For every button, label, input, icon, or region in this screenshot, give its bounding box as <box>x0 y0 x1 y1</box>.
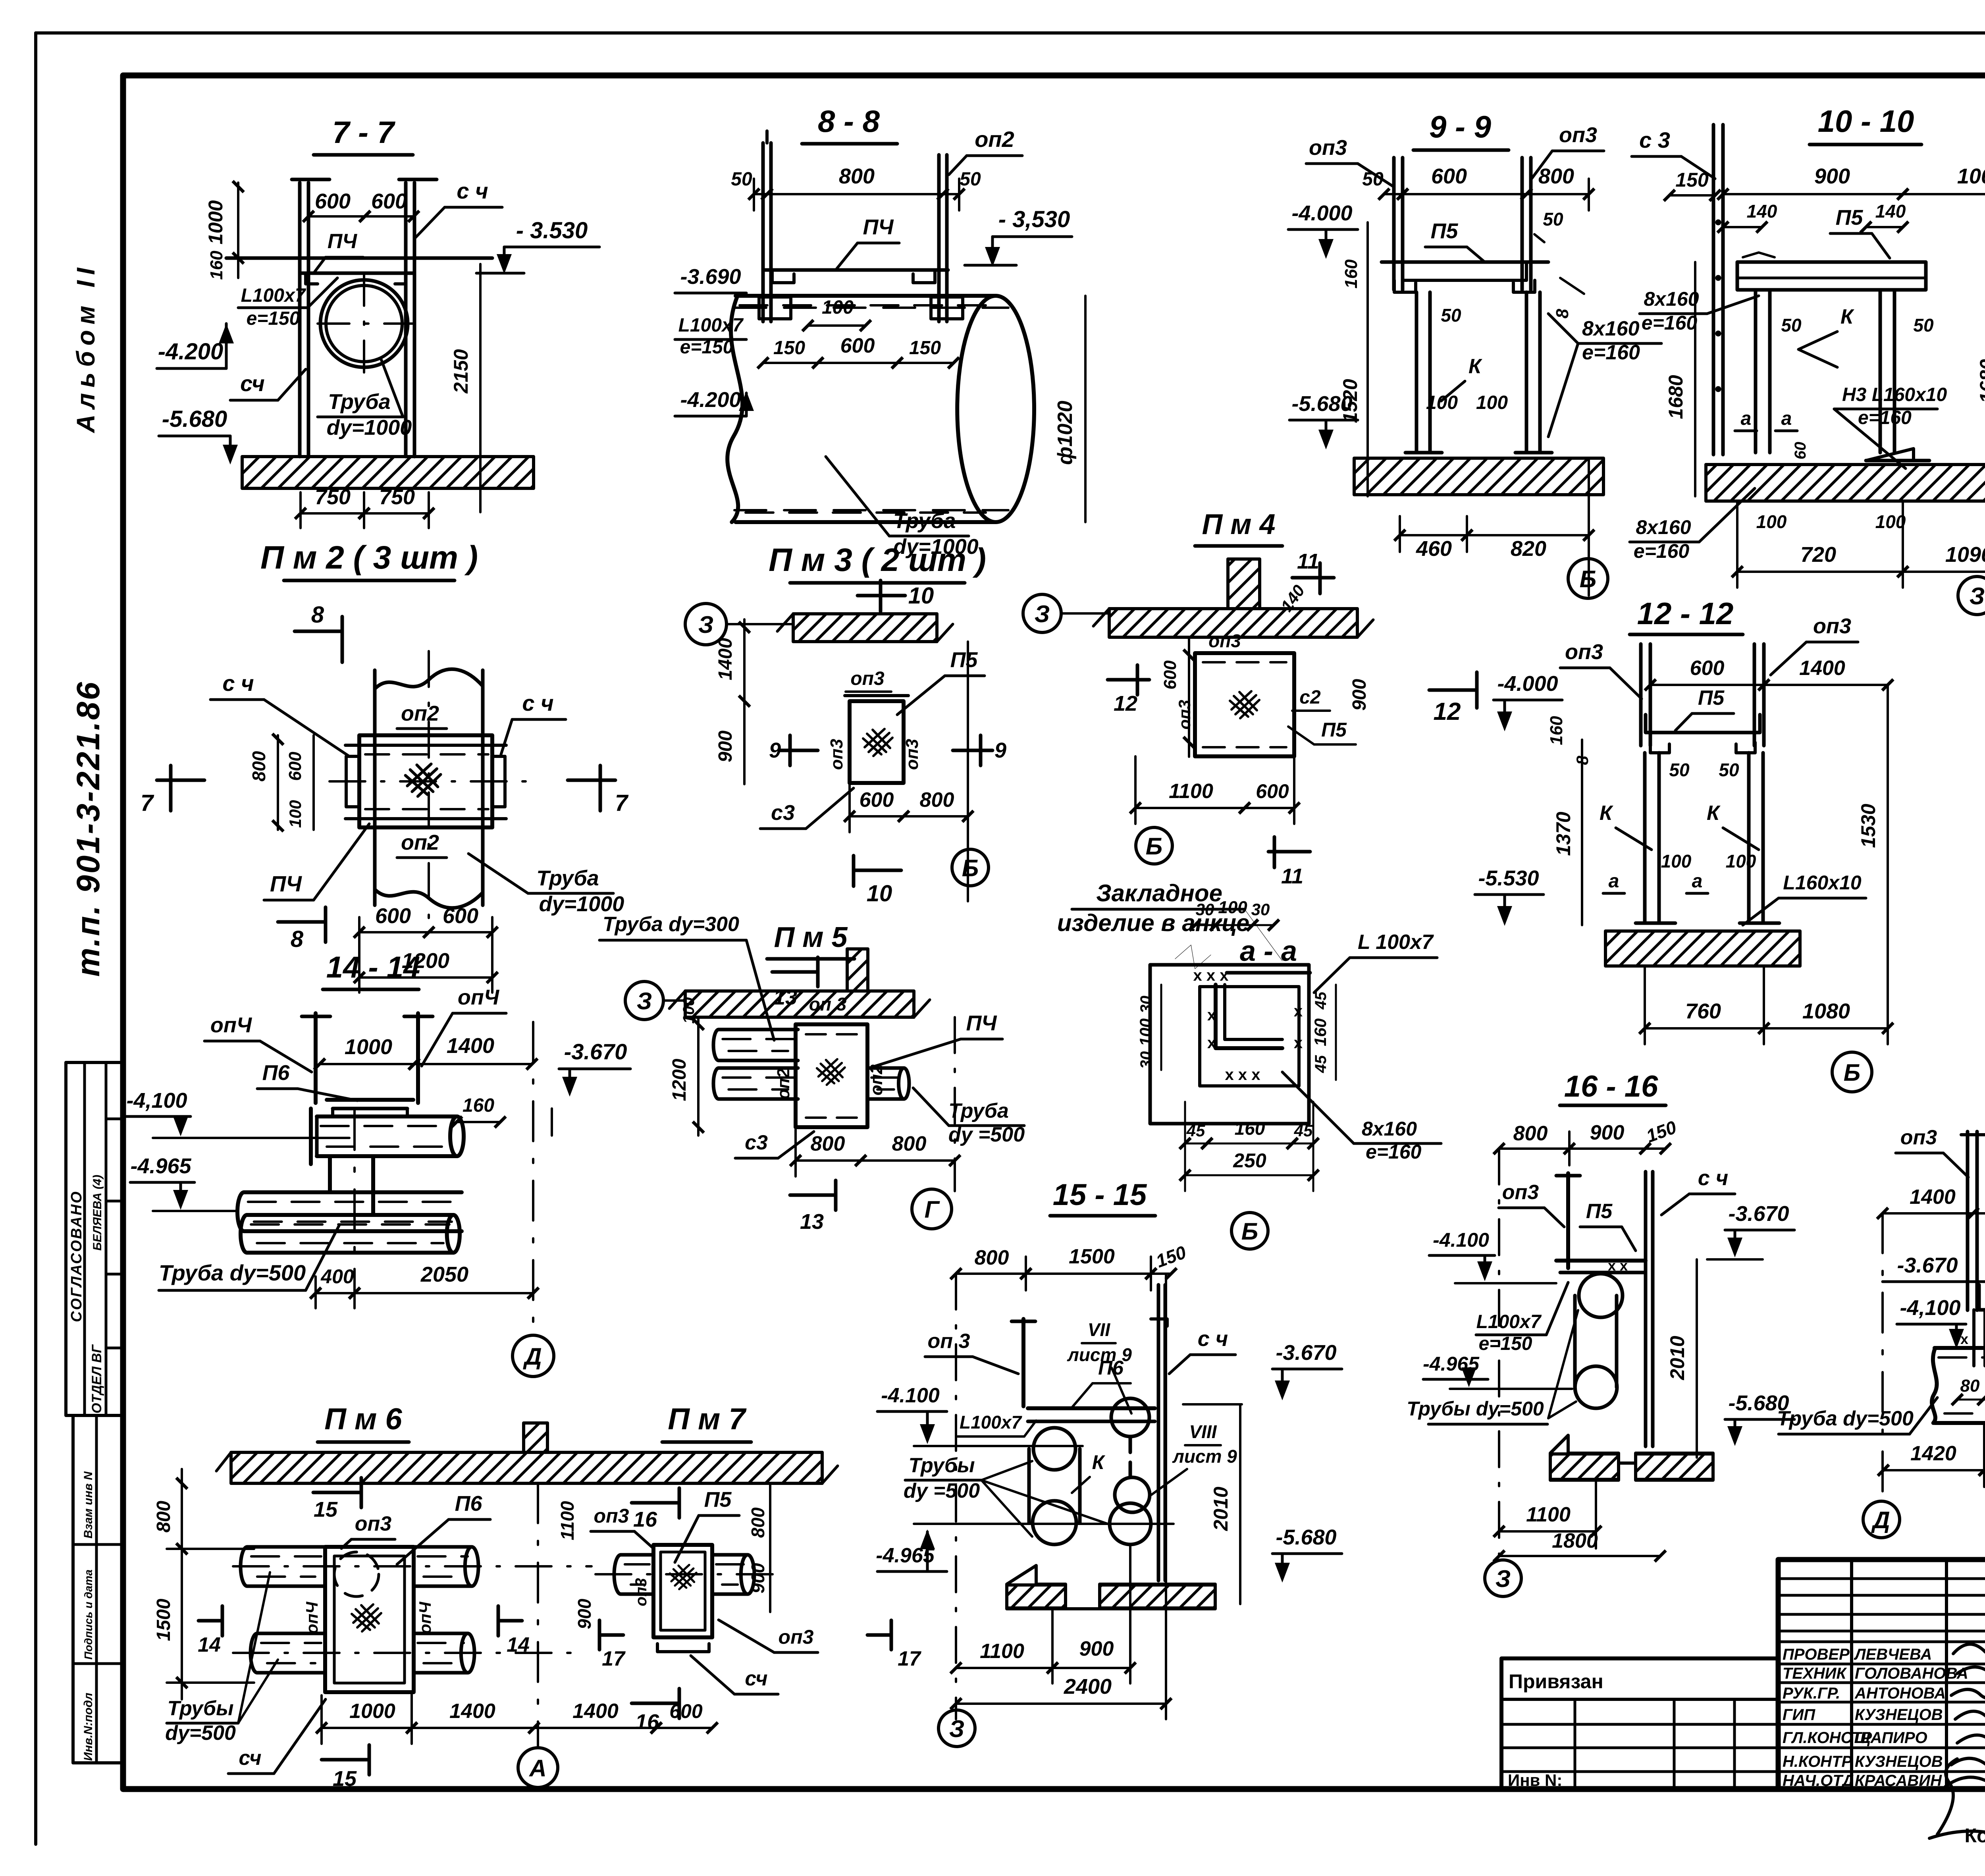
svg-text:З: З <box>637 988 652 1014</box>
svg-text:Б: Б <box>1146 833 1162 860</box>
svg-text:1000: 1000 <box>349 1700 395 1723</box>
plan Пм6 marker 15 bottom <box>322 1758 369 1762</box>
section 9-9 left column <box>1415 292 1418 453</box>
section 8-8 dim 150 600 150 <box>763 362 818 364</box>
svg-text:1100: 1100 <box>1526 1503 1571 1526</box>
section 12-12 node Б circle <box>1832 1052 1872 1092</box>
section 17-17 dims 1400 600 <box>1883 1212 1973 1215</box>
svg-text:800: 800 <box>249 751 269 781</box>
section 15-15 tall post СЧ <box>1157 1285 1160 1581</box>
annex table Привязан <box>1501 1658 1778 1789</box>
svg-text:50: 50 <box>731 169 752 190</box>
svg-text:1400: 1400 <box>1910 1186 1956 1209</box>
svg-text:оп3: оп3 <box>632 1578 650 1606</box>
svg-text:х: х <box>1294 1003 1303 1020</box>
svg-text:Инв.N:подл: Инв.N:подл <box>82 1693 95 1761</box>
svg-text:Альбом II: Альбом II <box>71 262 100 434</box>
plan Пм7 marker 16 top <box>632 1501 679 1505</box>
plan Пм3 crosshatch <box>863 729 892 756</box>
plan Пм3 dim 1400 left <box>743 619 746 784</box>
section 12-12 floor hatch band <box>1605 931 1800 966</box>
section 10-10 tall post <box>1712 125 1715 455</box>
svg-text:1370: 1370 <box>1552 812 1575 856</box>
title block signatures <box>1945 1644 1985 1787</box>
svg-text:с ч: с ч <box>1698 1166 1729 1190</box>
svg-text:х х х: х х х <box>1193 967 1229 984</box>
svg-text:ОТДЕЛ ВГ: ОТДЕЛ ВГ <box>89 1344 104 1413</box>
section 9-9 bottom dim 460 820 <box>1400 534 1467 536</box>
svg-text:-5.680: -5.680 <box>1291 392 1352 416</box>
svg-text:х: х <box>1960 1331 1968 1347</box>
section 12-12 columns <box>1643 753 1647 921</box>
plan Пм4 crosshatch <box>1230 691 1259 718</box>
svg-text:а - а: а - а <box>1240 935 1297 967</box>
plan Пм5 wall band <box>685 991 914 1017</box>
svg-text:Трубы: Трубы <box>167 1697 233 1720</box>
svg-text:14: 14 <box>198 1633 221 1656</box>
plan Пм7 markers 17 <box>599 1633 623 1637</box>
section 9-9 left dims 160 1520 <box>1366 222 1369 496</box>
svg-text:400: 400 <box>320 1265 354 1288</box>
svg-text:1400: 1400 <box>447 1034 494 1058</box>
section 10-10 node З circle <box>1958 576 1985 615</box>
svg-text:150: 150 <box>909 337 941 359</box>
svg-text:800: 800 <box>748 1507 768 1538</box>
svg-text:140: 140 <box>1875 201 1906 222</box>
svg-text:1400: 1400 <box>572 1700 619 1723</box>
section 8-8 left post оп2 <box>761 143 765 322</box>
svg-text:оп2: оп2 <box>401 702 439 725</box>
section а-а bottom dims 45 160 45 250 <box>1185 1143 1207 1145</box>
svg-text:Трубы dy=500: Трубы dy=500 <box>1407 1398 1544 1420</box>
plan Пм4 wall band <box>1109 609 1357 637</box>
svg-text:900: 900 <box>715 731 736 762</box>
svg-text:Труба: Труба <box>948 1099 1009 1122</box>
section 17-17 pipe <box>1932 1348 1937 1423</box>
section 7-7 pipe dy1000 circle <box>320 280 408 367</box>
svg-text:9 - 9: 9 - 9 <box>1429 109 1492 144</box>
svg-text:600: 600 <box>1160 660 1180 690</box>
svg-text:50: 50 <box>1441 305 1461 326</box>
svg-text:80: 80 <box>1960 1376 1980 1396</box>
svg-text:а: а <box>1609 871 1619 892</box>
plan Пм6 hole circle dashed <box>334 1552 379 1596</box>
svg-text:П м 3 ( 2 шт ): П м 3 ( 2 шт ) <box>769 542 986 578</box>
section а-а L angle <box>1216 985 1282 1048</box>
plan Пм3 node Б circle <box>952 849 989 886</box>
svg-text:30: 30 <box>1251 900 1270 919</box>
svg-text:оп2: оп2 <box>401 831 439 854</box>
svg-text:800: 800 <box>975 1246 1009 1269</box>
section 17-17 node Д circle <box>1863 1501 1900 1538</box>
svg-text:900: 900 <box>1349 679 1370 711</box>
svg-text:8х160: 8х160 <box>1644 288 1699 310</box>
svg-text:8: 8 <box>311 602 324 628</box>
svg-text:З: З <box>1035 601 1050 627</box>
plan Пм7 marker 16 bottom <box>632 1702 679 1705</box>
svg-text:-3.670: -3.670 <box>1728 1202 1789 1226</box>
plan Пм4 node З circle <box>1023 594 1061 632</box>
svg-text:600: 600 <box>375 904 411 928</box>
svg-text:800: 800 <box>892 1132 927 1155</box>
svg-text:-4.200: -4.200 <box>680 388 741 412</box>
svg-text:2150: 2150 <box>450 349 472 393</box>
plan Пм5 crosshatch <box>817 1059 845 1085</box>
svg-text:оп3: оп3 <box>779 1626 814 1648</box>
svg-text:12: 12 <box>1114 692 1137 715</box>
svg-text:10: 10 <box>867 881 892 906</box>
svg-text:РУК.ГР.: РУК.ГР. <box>1783 1685 1840 1702</box>
plan Пм2 centerlines <box>428 651 430 925</box>
ceiling hatch band Пм6 Пм7 <box>231 1452 822 1483</box>
svg-text:-4.200: -4.200 <box>158 339 223 364</box>
svg-text:с3: с3 <box>771 801 795 825</box>
svg-text:оп3: оп3 <box>1559 123 1597 147</box>
section 15-15 level line -4.965 <box>914 1523 1174 1525</box>
svg-text:30: 30 <box>1137 996 1155 1014</box>
svg-text:dy=500: dy=500 <box>165 1722 236 1745</box>
svg-text:100: 100 <box>1661 851 1692 871</box>
svg-text:1090: 1090 <box>1945 543 1985 567</box>
svg-text:800: 800 <box>839 164 875 188</box>
svg-text:100: 100 <box>1726 851 1756 871</box>
plan Пм4 wall pier <box>1228 559 1260 609</box>
svg-text:1100: 1100 <box>557 1501 578 1540</box>
svg-text:600: 600 <box>443 904 478 928</box>
svg-text:2400: 2400 <box>1064 1675 1112 1699</box>
svg-text:Труба: Труба <box>536 866 599 890</box>
svg-text:800: 800 <box>153 1501 174 1533</box>
svg-text:Труба dy=500: Труба dy=500 <box>1777 1407 1914 1430</box>
svg-text:10: 10 <box>908 583 934 609</box>
section 10-10 dim 900 1000 <box>1723 193 1903 195</box>
svg-text:ГОЛОВАНОВА: ГОЛОВАНОВА <box>1855 1665 1968 1682</box>
section 10-10 base wedge <box>1866 449 1914 461</box>
svg-text:Взам инв N: Взам инв N <box>82 1471 95 1539</box>
svg-text:З: З <box>1970 583 1985 609</box>
plan Пм2 section mark 8 top <box>295 630 342 633</box>
svg-text:Н.КОНТР: Н.КОНТР <box>1783 1753 1852 1770</box>
svg-text:Н3 L160х10: Н3 L160х10 <box>1842 384 1947 405</box>
plan Пм2 plate <box>359 735 492 827</box>
plan Пм6 marker 15 top <box>313 1491 361 1494</box>
svg-text:К: К <box>1469 355 1482 378</box>
svg-text:П5: П5 <box>1698 686 1725 710</box>
plan Пм4 bottom dims 1100 600 <box>1135 807 1245 809</box>
svg-text:50: 50 <box>1913 315 1934 335</box>
svg-text:ПЧ: ПЧ <box>270 871 302 896</box>
svg-text:оп3: оп3 <box>1309 136 1347 160</box>
svg-text:сч: сч <box>240 371 265 396</box>
plan Пм5 pipe right stub <box>904 1068 909 1099</box>
section 8-8 dim 50 800 50 <box>754 193 767 195</box>
svg-text:820: 820 <box>1511 537 1546 561</box>
plan Пм2 bottom dims 600 600 1200 <box>359 931 429 933</box>
svg-text:-4.000: -4.000 <box>1497 672 1558 696</box>
svg-text:П5: П5 <box>704 1488 732 1512</box>
plan Пм4 marker 11 top <box>1292 576 1334 580</box>
svg-text:-3.670: -3.670 <box>1276 1341 1336 1365</box>
section 8-8 big pipe ф1020 <box>727 296 742 522</box>
svg-text:50: 50 <box>1543 209 1563 229</box>
svg-text:с 3: с 3 <box>1639 127 1670 152</box>
section 12-12 dim 1370 <box>1581 740 1583 925</box>
sheet outer thin border <box>36 31 1985 35</box>
section 16-16 pipes stacked <box>1579 1274 1623 1317</box>
plan Пм5 marker 13 bottom <box>790 1193 836 1197</box>
plan Пм7 pipes <box>614 1555 621 1594</box>
svg-text:2010: 2010 <box>1210 1487 1232 1531</box>
plan Пм7 crosshatch <box>670 1565 696 1589</box>
plan Пм3 wall band <box>793 614 937 642</box>
svg-text:600: 600 <box>860 789 894 812</box>
svg-text:1400: 1400 <box>1799 657 1845 680</box>
svg-text:1530: 1530 <box>1857 804 1879 848</box>
svg-text:а: а <box>1741 408 1752 429</box>
section 9-9 base plates <box>1405 451 1442 455</box>
section 8-8 right post оп2 <box>937 155 941 322</box>
svg-text:е=150: е=150 <box>1479 1333 1532 1354</box>
svg-text:900: 900 <box>1814 164 1850 188</box>
svg-text:СОГЛАСОВАНО: СОГЛАСОВАНО <box>68 1190 85 1322</box>
svg-text:800: 800 <box>1513 1122 1548 1145</box>
svg-text:оп3: оп3 <box>1208 630 1241 651</box>
svg-text:с ч: с ч <box>222 671 254 696</box>
svg-text:Б: Б <box>1844 1059 1860 1086</box>
svg-text:45: 45 <box>1312 991 1330 1010</box>
svg-text:8х160: 8х160 <box>1582 317 1640 340</box>
plan Пм2 crosshatch <box>405 764 441 796</box>
section 14-14 lower pipes <box>237 1192 244 1231</box>
svg-text:30: 30 <box>1196 900 1214 919</box>
svg-text:45: 45 <box>1186 1121 1205 1140</box>
section 14-14 s-bend <box>328 1156 332 1192</box>
svg-text:х: х <box>1294 1034 1303 1052</box>
svg-text:- 3,530: - 3,530 <box>998 206 1070 232</box>
plan Пм6 plate <box>325 1547 414 1692</box>
svg-text:-4,100: -4,100 <box>1900 1296 1960 1320</box>
svg-text:П м 7: П м 7 <box>668 1402 747 1436</box>
svg-text:17: 17 <box>602 1647 626 1670</box>
svg-text:100: 100 <box>1136 1018 1155 1046</box>
svg-text:1200: 1200 <box>669 1059 690 1101</box>
svg-text:1000: 1000 <box>204 200 227 244</box>
svg-text:45: 45 <box>1312 1055 1330 1073</box>
plan Пм3 marker 10 top <box>858 594 905 598</box>
svg-text:100: 100 <box>1218 898 1247 917</box>
section 10-10 floor hatch band <box>1706 465 1985 501</box>
svg-text:150: 150 <box>1153 1242 1189 1271</box>
svg-text:600: 600 <box>840 334 875 357</box>
svg-text:К: К <box>1600 802 1613 825</box>
svg-text:П м 5: П м 5 <box>774 922 848 953</box>
svg-text:ПЧ: ПЧ <box>328 230 357 253</box>
svg-text:1500: 1500 <box>1069 1245 1115 1268</box>
svg-text:600: 600 <box>1690 657 1725 680</box>
svg-text:600: 600 <box>1431 164 1467 188</box>
plan Пм2 marker 7 right <box>568 779 615 782</box>
section 14-14 upper pipe <box>457 1116 464 1156</box>
svg-text:К: К <box>1840 305 1854 328</box>
svg-text:с ч: с ч <box>457 178 488 203</box>
svg-text:- 3.530: - 3.530 <box>516 218 588 243</box>
section 15-15 top dims 800 1500 150 <box>956 1273 1026 1275</box>
svg-text:е=160: е=160 <box>1858 407 1912 428</box>
svg-text:1800: 1800 <box>1552 1529 1598 1552</box>
section 14-14 axis to Д <box>532 1022 534 1334</box>
plan Пм6 markers 14 <box>198 1619 222 1623</box>
svg-text:8: 8 <box>291 926 304 952</box>
svg-text:100: 100 <box>1875 511 1906 532</box>
svg-text:оп2: оп2 <box>774 1068 793 1099</box>
svg-text:Привязан: Привязан <box>1509 1670 1603 1693</box>
svg-text:Труба dy=500: Труба dy=500 <box>159 1260 306 1285</box>
svg-text:опЧ: опЧ <box>458 985 500 1009</box>
section 7-7 bottom dim 750 750 <box>301 512 364 515</box>
plan Пм4 node Б circle <box>1136 827 1172 864</box>
section 10-10 columns <box>1754 290 1758 453</box>
plan Пм2 left dims 100 600 600 100 800 <box>277 735 279 830</box>
svg-text:КУЗНЕЦОВ: КУЗНЕЦОВ <box>1855 1706 1943 1724</box>
svg-text:оп3: оп3 <box>1900 1126 1937 1149</box>
svg-text:З: З <box>949 1716 965 1742</box>
svg-text:Д: Д <box>522 1343 542 1370</box>
section 12-12 thin bars <box>1639 644 1643 746</box>
svg-text:З: З <box>698 611 714 638</box>
svg-text:45: 45 <box>1294 1121 1313 1140</box>
svg-text:оп3: оп3 <box>1502 1181 1539 1204</box>
svg-text:8 - 8: 8 - 8 <box>818 104 880 139</box>
plan Пм2 marker 7 left <box>157 779 204 782</box>
svg-text:К: К <box>1092 1451 1106 1473</box>
section 16-16 floor band step <box>1550 1435 1713 1480</box>
svg-text:Б: Б <box>1580 566 1596 592</box>
svg-text:П м 4: П м 4 <box>1202 509 1275 540</box>
svg-text:8: 8 <box>1553 308 1572 318</box>
section 8-8 base pads <box>759 297 791 319</box>
svg-text:15: 15 <box>314 1498 338 1521</box>
svg-text:-3.690: -3.690 <box>680 265 741 289</box>
section 8-8 plate between posts <box>765 268 948 272</box>
plan Пм3 bottom dims 600 800 <box>850 815 904 817</box>
svg-text:160: 160 <box>463 1095 494 1116</box>
section 7-7 floor hatch band <box>242 457 534 488</box>
svg-text:с ч: с ч <box>522 690 553 715</box>
svg-text:т.п. 901-3-221.86: т.п. 901-3-221.86 <box>70 681 106 977</box>
svg-text:100: 100 <box>1476 392 1508 413</box>
ceiling pier <box>524 1423 547 1452</box>
section 9-9 right column <box>1525 292 1528 453</box>
svg-text:150: 150 <box>1644 1116 1679 1146</box>
svg-text:100: 100 <box>680 997 698 1024</box>
section 7-7 left post <box>298 183 302 457</box>
svg-text:460: 460 <box>1416 537 1452 561</box>
section 7-7 vertical dim 2150 <box>479 264 482 512</box>
svg-text:16: 16 <box>633 1508 657 1531</box>
svg-text:L100х7: L100х7 <box>241 285 306 306</box>
svg-text:dy=1000: dy=1000 <box>539 892 624 916</box>
svg-text:ГИП: ГИП <box>1783 1706 1815 1724</box>
svg-text:160: 160 <box>207 251 226 280</box>
svg-text:-4.100: -4.100 <box>1433 1229 1489 1251</box>
svg-text:х: х <box>1207 1006 1216 1024</box>
svg-text:-5.680: -5.680 <box>162 406 227 432</box>
svg-text:-4.100: -4.100 <box>881 1384 940 1407</box>
svg-text:оп3: оп3 <box>1565 640 1603 664</box>
plan Пм4 marker 11 bottom <box>1268 850 1310 854</box>
svg-text:а: а <box>1692 871 1703 892</box>
section 16-16 dim 2010 <box>1696 1259 1698 1458</box>
svg-text:30: 30 <box>1137 1051 1155 1069</box>
section 9-9 beam <box>1382 260 1548 264</box>
plan Пм2 side clamps СЧ <box>346 756 359 807</box>
svg-text:L100х7: L100х7 <box>960 1412 1022 1433</box>
section 15-15 dim 2010 <box>1239 1404 1241 1604</box>
section а-а outer square <box>1150 965 1309 1124</box>
svg-text:сч: сч <box>745 1667 767 1690</box>
svg-text:Б: Б <box>1241 1218 1258 1245</box>
svg-text:60: 60 <box>1792 442 1809 460</box>
plan Пм3 plate <box>850 701 904 783</box>
svg-text:Б: Б <box>962 855 979 881</box>
section 15-15 pipes right pair <box>1111 1398 1149 1436</box>
svg-text:L160х10: L160х10 <box>1783 871 1862 894</box>
plan Пм7 base channel <box>657 1644 709 1652</box>
svg-text:7: 7 <box>141 790 154 816</box>
section 15-15 floor band with notch <box>1007 1566 1215 1609</box>
section 12-12 bottom dim 760 1080 <box>1645 1027 1764 1030</box>
svg-text:П5: П5 <box>1836 206 1864 229</box>
svg-text:Д: Д <box>1871 1507 1890 1533</box>
svg-text:800: 800 <box>1538 164 1574 188</box>
plan Пм6 centerlines <box>233 1565 592 1568</box>
svg-text:опЧ: опЧ <box>303 1601 321 1634</box>
svg-text:100: 100 <box>1756 511 1787 532</box>
svg-text:а: а <box>1781 408 1792 429</box>
svg-text:П5: П5 <box>1431 219 1459 243</box>
svg-text:50: 50 <box>1781 315 1802 335</box>
svg-text:9: 9 <box>769 738 781 762</box>
section 17-17 bottom dims 1420 560 <box>1883 1469 1984 1471</box>
section 10-10 slab <box>1737 262 1926 290</box>
section 8-8 vertical dim ф1020 <box>1084 296 1087 522</box>
svg-text:9: 9 <box>994 738 1006 762</box>
svg-text:160: 160 <box>1311 1018 1330 1046</box>
section 9-9 floor hatch band <box>1354 458 1603 495</box>
svg-text:600: 600 <box>1256 780 1289 802</box>
svg-text:50: 50 <box>1669 760 1690 780</box>
svg-text:К: К <box>1707 802 1721 825</box>
section 15-15 bottom dims 1100 900 2400 <box>956 1667 1052 1669</box>
svg-text:х: х <box>1207 1034 1216 1052</box>
svg-text:АНТОНОВА: АНТОНОВА <box>1854 1685 1946 1702</box>
section 9-9 left bar <box>1392 158 1396 290</box>
plan Пм6 bottom dims 1000 1400 1400 600 <box>322 1727 412 1729</box>
plan Пм5 pipes left <box>713 1030 719 1060</box>
section 7-7 shelf plate <box>226 256 492 260</box>
section 15-15 pipes left pair <box>1033 1428 1075 1470</box>
svg-text:-5.530: -5.530 <box>1478 866 1539 890</box>
section 12-12 top dim 600 1400 <box>1650 684 1764 686</box>
svg-text:1420: 1420 <box>1910 1442 1956 1465</box>
svg-text:Труба: Труба <box>328 390 390 414</box>
svg-text:1400: 1400 <box>449 1700 495 1723</box>
svg-text:Подпись и дата: Подпись и дата <box>82 1569 94 1660</box>
svg-text:-4.965: -4.965 <box>130 1154 191 1178</box>
section а-а inner plate <box>1200 987 1299 1086</box>
plan Пм3 marker 9 right <box>953 749 992 752</box>
svg-text:2050: 2050 <box>420 1263 468 1286</box>
